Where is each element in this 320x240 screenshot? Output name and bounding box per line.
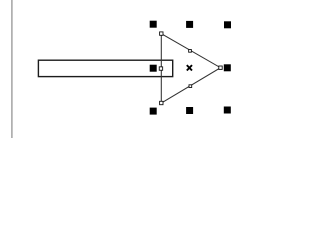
- node: lower slanted edge midpoint: [189, 85, 192, 88]
- selection center X mark: [187, 65, 192, 70]
- node: triangle top vertex: [160, 32, 163, 35]
- selection handle bottom-middle: [186, 107, 193, 114]
- rectangle shape: [38, 60, 172, 76]
- selection handle top-left: [150, 21, 157, 28]
- node: left edge midpoint: [159, 67, 162, 70]
- selection handle top-right: [224, 21, 231, 28]
- guide line (vertical ruler/page edge): [11, 0, 13, 138]
- selection handle bottom-left: [150, 108, 157, 115]
- selection handle bottom-right: [224, 107, 231, 114]
- selection handle top-middle: [186, 21, 193, 28]
- triangle shape (selected object): [161, 34, 220, 103]
- node: upper slanted edge midpoint: [189, 50, 192, 53]
- selection handle middle-right: [224, 64, 231, 71]
- node: triangle right vertex: [219, 66, 222, 69]
- node: triangle bottom vertex: [160, 101, 163, 104]
- selection handle middle-left: [150, 65, 157, 72]
